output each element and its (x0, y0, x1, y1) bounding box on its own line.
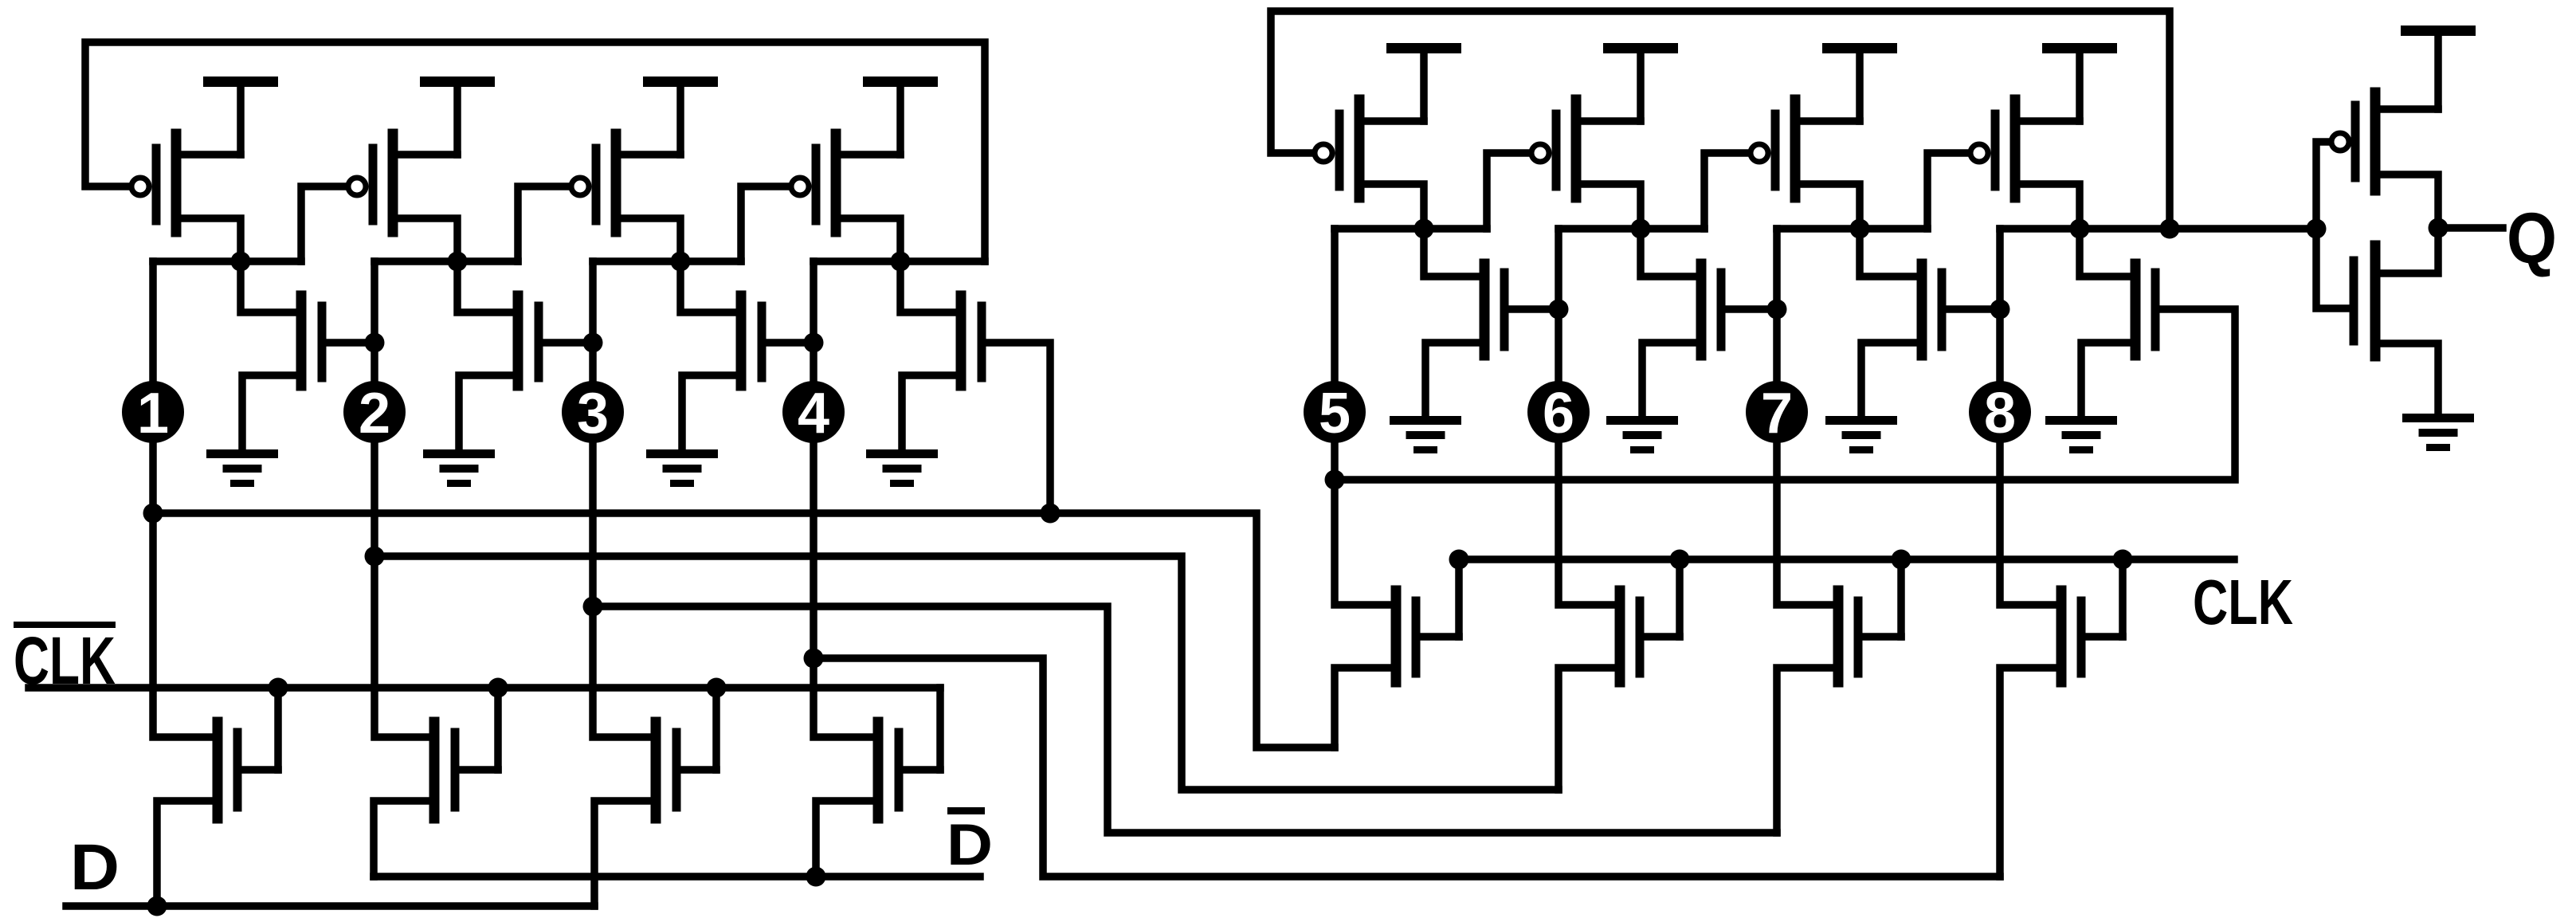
wire: T6 gate riser to CLK rail (1676, 559, 1684, 637)
junction: M3 gate tap on node 4 (804, 333, 824, 353)
wire: node 3 bus to slave stage 7 (593, 606, 1777, 833)
vdd supply of stage 4 (863, 77, 938, 155)
pmos P4 (816, 134, 900, 261)
svg-text:7: 7 (1761, 382, 1793, 445)
pmos P4 gate bubble (791, 178, 809, 195)
svg-text:3: 3 (577, 382, 609, 445)
nmos M4 (pull-down) (900, 261, 982, 454)
junction: M7 gate tap on node 8 (1990, 300, 2010, 320)
pass transistor T4 (clocked by CLKB) (816, 722, 940, 877)
ground of stage 7 nmos (1825, 416, 1897, 453)
wire: node 7 to pmos P8 gate (1927, 153, 1970, 229)
wire: T5 gate riser to CLK rail (1455, 559, 1463, 637)
ground of stage 5 nmos (1390, 416, 1461, 453)
junction: stage 4 output node (891, 252, 911, 272)
wire: T8 gate riser to CLK rail (2119, 559, 2127, 637)
wire: nmos M4 gate feedback to node 1 bus (982, 343, 1050, 513)
pass transistor T3 (clocked by CLKB) (594, 722, 716, 906)
wire: inverter input to nmos M9 gate (2316, 229, 2350, 308)
junction: bus tap on node 3 (583, 597, 603, 617)
pmos P6 gate bubble (1531, 144, 1549, 162)
wire: CLK rail (1459, 555, 2234, 563)
node wire of stage 3 (y=328) (593, 257, 741, 265)
node wire of stage 4 (y=328) (814, 257, 985, 265)
junction: T1 source on D rail (147, 896, 167, 916)
svg-text:2: 2 (359, 382, 390, 445)
vdd supply of stage 2 (420, 77, 495, 155)
node 8 marker (1969, 381, 2031, 445)
pmos P7 (1775, 100, 1860, 229)
svg-text:5: 5 (1319, 382, 1351, 445)
pmos P2 (373, 134, 457, 261)
wire: node 5 to pmos P6 gate (1487, 153, 1531, 229)
overline of CLKB label (14, 622, 116, 628)
wire: nmos M8 gate feedback to node 5 (1335, 309, 2235, 480)
junction: stage 2 output node (448, 252, 468, 272)
ground of stage 1 nmos (206, 449, 278, 487)
junction: T4 source on DB rail (806, 867, 826, 887)
ground of stage 4 nmos (866, 449, 938, 487)
svg-text:4: 4 (798, 382, 829, 445)
node 7 marker (1746, 381, 1808, 445)
ground of stage 3 nmos (646, 449, 718, 487)
node wire of stage 5 (y=287) (1335, 225, 1487, 233)
wire: node 1 bus to slave stage 5 (153, 513, 1335, 747)
svg-text:Q: Q (2507, 199, 2557, 279)
nmos M8 (pull-down) (2080, 229, 2155, 421)
node wire of stage 7 (y=287) (1777, 225, 1927, 233)
vdd supply of stage 1 (203, 77, 278, 155)
vdd supply of stage 7 (1822, 43, 1897, 121)
junction: M4 gate tap on node 1 bus (1041, 504, 1061, 524)
node wire of stage 2 (y=328) (374, 257, 518, 265)
pmos P9 gate bubble (2331, 133, 2349, 151)
junction: stage 6 output node (1631, 219, 1651, 239)
wire: node 6 to pmos P7 gate (1704, 153, 1751, 229)
wire: node 1 to pmos P2 gate (301, 186, 348, 261)
wire: T7 gate riser to CLK rail (1897, 559, 1905, 637)
clocked transistor T5 (clocked by CLK) (1335, 590, 1459, 747)
junction: stage 7 output node (1850, 219, 1870, 239)
nmos M1 (pull-down) (241, 261, 322, 454)
wire: input D rail (66, 902, 594, 910)
junction: M6 gate tap on node 7 (1767, 300, 1787, 320)
nmos M3 (pull-down) (680, 261, 762, 454)
node wire of stage 8 (y=287) (2000, 225, 2316, 233)
junction: bus tap on node 1 (143, 504, 163, 524)
wire: T1 gate riser to CLKB (274, 688, 282, 770)
wire: output Q stub (2438, 224, 2503, 232)
svg-text:1: 1 (137, 382, 169, 445)
wire: feedback rail from node 8 to PMOS P5 gate (top right) (1271, 11, 2170, 229)
vdd supply of stage 5 (1386, 43, 1461, 121)
vdd supply of stage 8 (2042, 43, 2117, 121)
junction: T2 gate on CLKB rail (488, 678, 508, 698)
pmos P1 gate bubble (131, 178, 149, 195)
vdd supply of output inverter (2401, 26, 2476, 109)
wire: node 6 vertical down to clocked transistor T6 (1559, 229, 1620, 605)
node 2 marker (343, 381, 406, 445)
svg-text:D: D (70, 831, 120, 904)
junction: feedback tap on node 8 rail (2160, 219, 2180, 239)
junction: inverter output node (2429, 218, 2449, 238)
nmos M5 (pull-down) (1424, 229, 1504, 421)
wire: nmos M5 gate to node 6 (1504, 305, 1559, 313)
wire: node 2 vertical down to pass transistor T2 (374, 261, 434, 737)
wire: nmos M6 gate to node 7 (1721, 305, 1777, 313)
node 4 marker (782, 381, 845, 445)
junction: M1 gate tap on node 2 (365, 333, 385, 353)
wire: node 2 bus to slave stage 6 (374, 556, 1559, 790)
junction: M2 gate tap on node 3 (583, 333, 603, 353)
junction: inverter input tap on node 8 rail (2307, 219, 2327, 239)
pass transistor T1 (clocked by CLKB) (157, 722, 278, 906)
pmos P5 (1339, 100, 1424, 229)
wire: nmos M2 gate to node 3 (539, 339, 593, 347)
nmos M7 (pull-down) (1860, 229, 1942, 421)
nmos M6 (pull-down) (1641, 229, 1721, 421)
wire: node 5 vertical down to clocked transistor T5 (1335, 229, 1396, 605)
pmos P2 gate bubble (348, 178, 366, 195)
junction: stage 1 output node (231, 252, 251, 272)
pmos P1 (156, 134, 241, 261)
junction: M5 gate tap on node 6 (1549, 300, 1569, 320)
junction: bus tap on node 2 (365, 547, 385, 567)
pmos P3 (596, 134, 680, 261)
svg-text:CLK: CLK (2193, 567, 2293, 638)
clocked transistor T6 (clocked by CLK) (1559, 590, 1680, 790)
junction: stage 8 output node (2070, 219, 2090, 239)
junction: T8 gate on CLK rail (2113, 550, 2133, 570)
junction: T1 gate on CLKB rail (269, 678, 288, 698)
nmos M2 (pull-down) (457, 261, 539, 454)
wire: node 1 vertical down to pass transistor T1 (153, 261, 218, 737)
pmos P5 gate bubble (1315, 144, 1332, 162)
pmos P7 gate bubble (1751, 144, 1768, 162)
wire: nmos M1 gate to node 2 (322, 339, 374, 347)
overline of DB label (947, 807, 985, 814)
pmos P3 gate bubble (571, 178, 589, 195)
wire: node 3 to pmos P4 gate (741, 186, 791, 261)
ground of stage 2 nmos (423, 449, 495, 487)
junction: T5 gate on CLK rail (1449, 550, 1469, 570)
svg-text:8: 8 (1984, 382, 2016, 445)
pmos P8 gate bubble (1970, 144, 1988, 162)
wire: T4 gate riser to CLKB (936, 688, 944, 770)
junction: T3 gate on CLKB rail (707, 678, 727, 698)
wire: node 2 to pmos P3 gate (518, 186, 571, 261)
junction: T7 gate on CLK rail (1892, 550, 1911, 570)
ground of stage 6 nmos (1606, 416, 1678, 453)
pmos P9 (output inverter) (2355, 92, 2438, 228)
wire: inverter input to pmos P9 gate (2316, 142, 2331, 229)
vdd supply of stage 3 (643, 77, 718, 155)
wire: CLKB rail (29, 684, 940, 692)
pass transistor T2 (clocked by CLKB) (374, 722, 498, 877)
junction: stage 3 output node (671, 252, 691, 272)
wire: feedback rail from node 4 to PMOS P1 gate (top left) (85, 42, 985, 261)
wire: DB rail (374, 873, 980, 881)
node 5 marker (1304, 381, 1366, 445)
wire: node 3 vertical down to pass transistor T3 (593, 261, 656, 737)
junction: M8 gate tap on node 5 (1325, 470, 1345, 490)
node 6 marker (1527, 381, 1590, 445)
wire: T2 gate riser to CLKB (494, 688, 502, 770)
node 3 marker (562, 381, 624, 445)
wire: node 4 vertical down to pass transistor T4 (814, 261, 878, 737)
wire: node 7 vertical down to clocked transistor T7 (1777, 229, 1838, 605)
junction: T6 gate on CLK rail (1670, 550, 1690, 570)
pmos P8 (1995, 100, 2080, 229)
junction: bus tap on node 4 (804, 649, 824, 669)
wire: node 8 vertical down to clocked transistor T8 (2000, 229, 2061, 605)
clocked transistor T8 (clocked by CLK) (2000, 590, 2123, 877)
wire: T3 gate riser to CLKB (712, 688, 720, 770)
nmos M9 (output inverter) (2354, 228, 2438, 418)
node wire of stage 1 (y=328) (153, 257, 301, 265)
wire: nmos M7 gate to node 8 (1942, 305, 2000, 313)
pmos P6 (1556, 100, 1641, 229)
ground of stage 8 nmos (2045, 416, 2117, 453)
svg-text:D: D (947, 813, 993, 877)
junction: stage 5 output node (1414, 219, 1434, 239)
wire: node 4 bus to slave stage 8 (814, 658, 2000, 877)
wire: nmos M3 gate to node 4 (762, 339, 814, 347)
node 1 marker (122, 381, 184, 445)
svg-text:6: 6 (1543, 382, 1574, 445)
clocked transistor T7 (clocked by CLK) (1777, 590, 1901, 833)
ground of output inverter (2402, 414, 2474, 451)
vdd supply of stage 6 (1603, 43, 1678, 121)
node wire of stage 6 (y=287) (1559, 225, 1704, 233)
